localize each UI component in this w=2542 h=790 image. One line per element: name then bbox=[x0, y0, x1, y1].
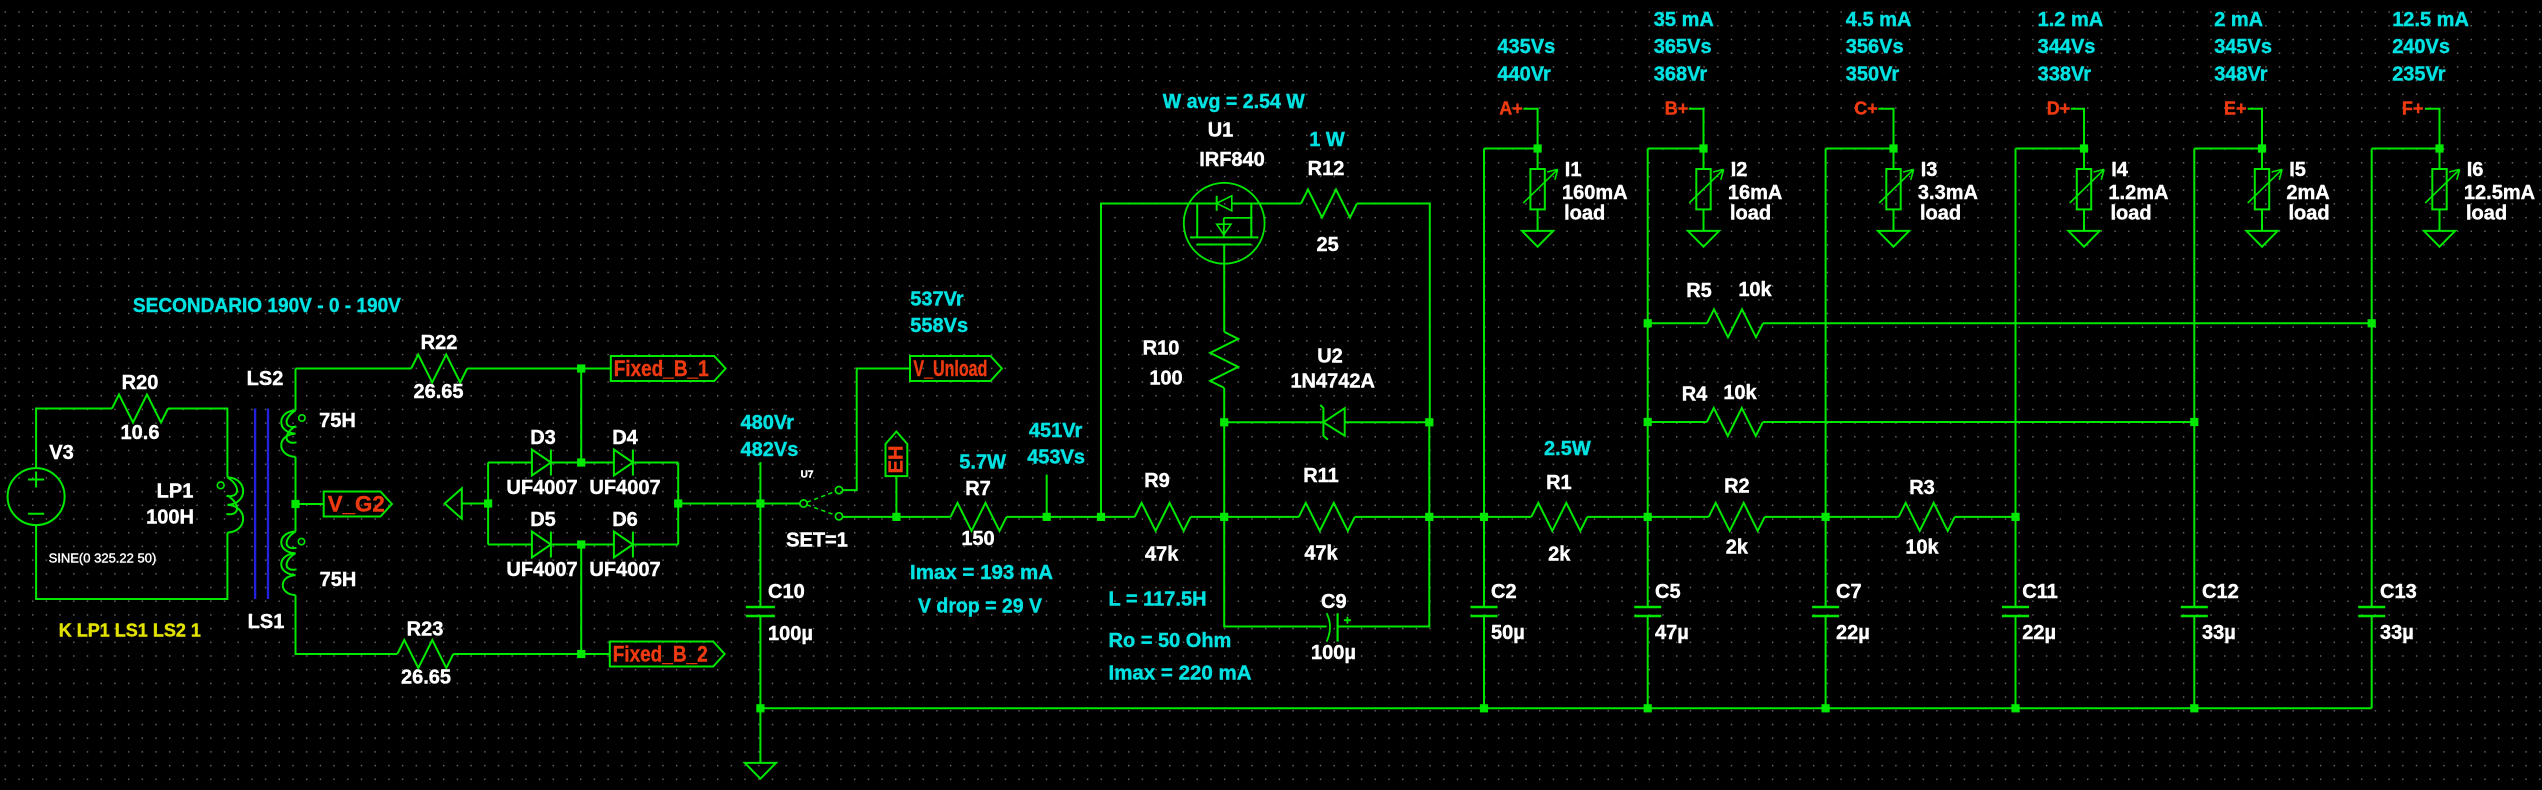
transformer core bbox=[255, 409, 268, 600]
wire bridge output to switch bbox=[678, 503, 800, 505]
svg-text:I2: I2 bbox=[1731, 159, 1748, 181]
svg-text:537Vr: 537Vr bbox=[910, 288, 964, 310]
svg-text:C13: C13 bbox=[2380, 581, 2417, 603]
svg-text:2k: 2k bbox=[1548, 543, 1571, 565]
svg-text:35 mA: 35 mA bbox=[1654, 9, 1714, 31]
svg-text:348Vr: 348Vr bbox=[2214, 64, 2268, 86]
net flag Fixed_B_2 bbox=[610, 642, 725, 667]
wire C9 left leg bbox=[1224, 517, 1326, 627]
svg-text:LP1: LP1 bbox=[157, 481, 194, 503]
junction E rail bottom bbox=[2190, 704, 2198, 712]
svg-text:D3: D3 bbox=[530, 427, 556, 449]
svg-text:47µ: 47µ bbox=[1655, 622, 1689, 644]
wire load top to rail B+ bbox=[1648, 148, 1704, 150]
wire D6 to bridge right bbox=[633, 544, 678, 546]
junction load I2 top bbox=[1699, 144, 1707, 152]
svg-text:10k: 10k bbox=[1723, 382, 1757, 404]
svg-text:2mA: 2mA bbox=[2286, 182, 2329, 204]
diode D6 bbox=[614, 532, 633, 558]
wire B to R5 bbox=[1648, 322, 1707, 324]
diode D3 bbox=[532, 450, 551, 476]
svg-text:235Vr: 235Vr bbox=[2392, 64, 2446, 86]
svg-text:R10: R10 bbox=[1143, 338, 1180, 360]
wire arrow to bridge left node bbox=[462, 503, 488, 505]
wire R7 to R9 bbox=[1007, 516, 1135, 518]
svg-text:C10: C10 bbox=[768, 581, 805, 603]
svg-text:22µ: 22µ bbox=[1836, 622, 1870, 644]
wire F rail lower bbox=[2371, 616, 2373, 709]
svg-text:482Vs: 482Vs bbox=[741, 439, 799, 461]
svg-text:160mA: 160mA bbox=[1562, 182, 1628, 204]
svg-text:C9: C9 bbox=[1321, 591, 1347, 613]
svg-text:V drop = 29 V: V drop = 29 V bbox=[918, 596, 1043, 618]
wire bridge top-left bbox=[488, 462, 532, 464]
svg-text:SET=1: SET=1 bbox=[786, 530, 848, 552]
wire C10 lower bbox=[759, 616, 761, 709]
phase dot LS1 bbox=[298, 538, 304, 544]
wire LP1 bottom to V3 bbox=[36, 525, 227, 599]
wire E rail lower bbox=[2193, 616, 2195, 709]
resistor R12 bbox=[1301, 190, 1357, 218]
junction B rail bottom bbox=[1644, 704, 1652, 712]
wire D4 to bridge right bbox=[633, 462, 678, 464]
wire LS2 top to R22 bbox=[296, 368, 412, 370]
resistor R11 bbox=[1299, 503, 1355, 531]
svg-text:344Vs: 344Vs bbox=[2038, 36, 2096, 58]
junction load I6 top bbox=[2435, 144, 2443, 152]
wire switch upper throw to V_Unload bbox=[843, 369, 910, 491]
wire R4 to E rail bbox=[1763, 421, 2195, 423]
svg-text:R2: R2 bbox=[1724, 476, 1750, 498]
svg-text:load: load bbox=[2466, 202, 2507, 224]
svg-text:10k: 10k bbox=[1738, 279, 1772, 301]
svg-text:R12: R12 bbox=[1308, 158, 1345, 180]
wire D+ to load top bbox=[2071, 109, 2084, 149]
svg-text:10k: 10k bbox=[1905, 537, 1939, 559]
resistor R22 bbox=[411, 355, 467, 383]
inductor LS2 bbox=[295, 369, 297, 411]
wire R9 to R11 bbox=[1191, 516, 1299, 518]
wire to ground bbox=[759, 708, 761, 763]
wire C rail bbox=[1825, 149, 1827, 608]
junction ground bus left bbox=[756, 704, 764, 712]
svg-text:10.6: 10.6 bbox=[121, 422, 160, 444]
svg-text:F+: F+ bbox=[2402, 98, 2424, 118]
svg-text:75H: 75H bbox=[320, 569, 357, 591]
junction B rail bus node bbox=[1644, 513, 1652, 521]
wire A+ to load top bbox=[1523, 109, 1537, 149]
junction load I3 top bbox=[1889, 144, 1897, 152]
svg-text:R7: R7 bbox=[965, 478, 991, 500]
svg-text:4.5 mA: 4.5 mA bbox=[1846, 9, 1912, 31]
switch U7 bbox=[800, 500, 807, 507]
wire F+ to load top bbox=[2425, 109, 2440, 149]
svg-text:Imax = 193 mA: Imax = 193 mA bbox=[910, 562, 1053, 584]
svg-text:356Vs: 356Vs bbox=[1846, 36, 1904, 58]
svg-text:100µ: 100µ bbox=[768, 623, 813, 645]
svg-text:R22: R22 bbox=[421, 332, 458, 354]
resistor R3 bbox=[1899, 503, 1955, 531]
svg-text:SECONDARIO 190V - 0 - 190V: SECONDARIO 190V - 0 - 190V bbox=[133, 295, 402, 317]
resistor R10 bbox=[1210, 332, 1238, 388]
wire R2 to R3 bbox=[1765, 516, 1899, 518]
wire B rail bbox=[1647, 149, 1649, 608]
svg-text:C11: C11 bbox=[2022, 581, 2058, 603]
svg-text:22µ: 22µ bbox=[2022, 622, 2056, 644]
svg-text:100H: 100H bbox=[146, 507, 194, 529]
svg-text:Fixed_B_2: Fixed_B_2 bbox=[613, 642, 708, 667]
svg-text:345Vs: 345Vs bbox=[2214, 36, 2272, 58]
svg-text:Ro = 50 Ohm: Ro = 50 Ohm bbox=[1109, 630, 1232, 652]
wire load top to rail E+ bbox=[2194, 148, 2262, 150]
capacitor C10 bbox=[746, 607, 775, 616]
junction EH node bbox=[892, 513, 900, 521]
svg-text:12.5 mA: 12.5 mA bbox=[2392, 9, 2469, 31]
wire bridge right vertical bbox=[677, 463, 679, 545]
svg-text:365Vs: 365Vs bbox=[1654, 36, 1712, 58]
junction A rail bus node bbox=[1480, 513, 1488, 521]
svg-text:I4: I4 bbox=[2111, 159, 2129, 181]
svg-text:R5: R5 bbox=[1686, 280, 1712, 302]
junction B-R5 bbox=[1644, 319, 1652, 327]
current source I5 bbox=[2261, 149, 2263, 170]
svg-text:I1: I1 bbox=[1565, 159, 1582, 181]
resistor R20 bbox=[112, 395, 168, 423]
node center tap bbox=[291, 500, 299, 508]
capacitor C11 bbox=[2002, 607, 2029, 616]
wire D rail lower bbox=[2015, 616, 2017, 709]
svg-text:B+: B+ bbox=[1665, 98, 1689, 118]
svg-text:C12: C12 bbox=[2202, 581, 2239, 603]
wire load top to rail F+ bbox=[2372, 148, 2440, 150]
capacitor C12 bbox=[2181, 607, 2208, 616]
wire MOSFET source to R10 bbox=[1223, 264, 1225, 332]
svg-text:UF4007: UF4007 bbox=[589, 559, 660, 581]
svg-text:C7: C7 bbox=[1836, 581, 1862, 603]
svg-text:Imax = 220 mA: Imax = 220 mA bbox=[1109, 663, 1252, 685]
svg-text:451Vr: 451Vr bbox=[1029, 420, 1083, 442]
capacitor C2 bbox=[1471, 607, 1498, 616]
svg-text:W avg = 2.54 W: W avg = 2.54 W bbox=[1163, 91, 1305, 113]
wire main bus switch to R7 bbox=[843, 516, 951, 518]
junction bridge top bbox=[577, 458, 585, 466]
wire R12 to zener-right node bbox=[1357, 204, 1430, 423]
wire B to R4 bbox=[1648, 421, 1707, 423]
junction Fixed_B_2 node bbox=[577, 650, 585, 658]
wire B+ to load top bbox=[1689, 109, 1704, 149]
current source I3 bbox=[1893, 149, 1895, 170]
net flag V_Unload bbox=[910, 356, 1002, 381]
svg-text:1.2 mA: 1.2 mA bbox=[2038, 9, 2104, 31]
junction load I1 top bbox=[1534, 144, 1542, 152]
wire gate node to MOSFET gate bbox=[1101, 204, 1184, 517]
wire load top to rail C+ bbox=[1826, 148, 1894, 150]
svg-text:UF4007: UF4007 bbox=[589, 477, 660, 499]
capacitor C5 bbox=[1634, 607, 1661, 616]
net flag Fixed_B_1 bbox=[611, 356, 726, 381]
svg-text:V3: V3 bbox=[49, 442, 73, 464]
svg-text:U2: U2 bbox=[1317, 346, 1343, 368]
capacitor C13 bbox=[2358, 607, 2385, 616]
svg-text:75H: 75H bbox=[319, 410, 356, 432]
svg-text:R11: R11 bbox=[1303, 465, 1339, 487]
wire zener-left node to U2 bbox=[1224, 421, 1323, 423]
wire D3 to D4 bbox=[551, 462, 614, 464]
wire C9 right leg bbox=[1338, 517, 1430, 627]
wire A rail lower bbox=[1483, 616, 1485, 709]
wire C rail lower bbox=[1825, 616, 1827, 709]
resistor R9 bbox=[1135, 503, 1191, 531]
wire R23 to Fixed_B_2 bbox=[453, 653, 610, 655]
svg-text:U1: U1 bbox=[1208, 120, 1234, 142]
svg-text:load: load bbox=[1564, 202, 1605, 224]
svg-text:C5: C5 bbox=[1655, 581, 1681, 603]
current source I4 bbox=[2083, 149, 2085, 170]
svg-text:25: 25 bbox=[1316, 234, 1338, 256]
junction Fixed_B_1 node bbox=[577, 364, 585, 372]
wire bridge to Fixed_B_2 node bbox=[580, 545, 582, 655]
voltage source V3 bbox=[8, 468, 65, 525]
svg-text:2.5W: 2.5W bbox=[1544, 438, 1591, 460]
svg-text:150: 150 bbox=[961, 528, 994, 550]
svg-text:LS1: LS1 bbox=[248, 611, 285, 633]
capacitor C7 bbox=[1812, 607, 1839, 616]
junction bridge bottom bbox=[577, 540, 585, 548]
net flag V_G2 bbox=[324, 492, 392, 517]
wire F rail bbox=[2371, 149, 2373, 608]
transistor U1 IRF840 bbox=[1184, 183, 1265, 264]
svg-text:V_Unload: V_Unload bbox=[913, 356, 987, 381]
resistor R5 bbox=[1707, 309, 1763, 337]
svg-text:47k: 47k bbox=[1145, 543, 1179, 565]
svg-text:EH: EH bbox=[885, 446, 907, 474]
svg-text:3.3mA: 3.3mA bbox=[1918, 182, 1978, 204]
svg-text:I6: I6 bbox=[2467, 159, 2484, 181]
junction zener-right bbox=[1425, 418, 1433, 426]
junction D rail bus end bbox=[2011, 513, 2019, 521]
svg-text:100: 100 bbox=[1149, 368, 1182, 390]
svg-text:26.65: 26.65 bbox=[413, 381, 463, 403]
wire R1 to R2 bbox=[1587, 516, 1708, 518]
svg-text:C+: C+ bbox=[1854, 98, 1878, 118]
port arrow input bbox=[445, 488, 462, 518]
svg-text:2 mA: 2 mA bbox=[2214, 9, 2263, 31]
wire R22 to Fixed_B_1 bbox=[467, 368, 611, 370]
wire V3 top to R20 bbox=[36, 409, 112, 469]
svg-text:E+: E+ bbox=[2224, 98, 2247, 118]
wire C+ to load top bbox=[1878, 109, 1893, 149]
current source I6 bbox=[2439, 149, 2441, 170]
wire LS1 to R23 bbox=[296, 595, 398, 654]
svg-text:K LP1 LS1 LS2 1: K LP1 LS1 LS2 1 bbox=[59, 620, 201, 640]
svg-text:D6: D6 bbox=[612, 509, 638, 531]
wire R11 to R1 section bbox=[1355, 516, 1532, 518]
wire load top to rail A+ bbox=[1484, 148, 1538, 150]
wire A rail bbox=[1483, 149, 1485, 608]
wire B rail lower bbox=[1647, 616, 1649, 709]
svg-text:load: load bbox=[1730, 202, 1771, 224]
svg-text:435Vs: 435Vs bbox=[1497, 36, 1555, 58]
svg-text:IRF840: IRF840 bbox=[1199, 149, 1265, 171]
svg-text:I3: I3 bbox=[1921, 159, 1938, 181]
svg-text:12.5mA: 12.5mA bbox=[2464, 182, 2535, 204]
svg-text:R9: R9 bbox=[1144, 470, 1170, 492]
junction load I4 top bbox=[2080, 144, 2088, 152]
svg-text:R3: R3 bbox=[1909, 477, 1935, 499]
net flag EH bbox=[886, 432, 908, 477]
junction B-R4 bbox=[1644, 418, 1652, 426]
inductor LS1 bbox=[295, 504, 297, 532]
svg-text:L = 117.5H: L = 117.5H bbox=[1109, 589, 1207, 611]
resistor R2 bbox=[1709, 503, 1765, 531]
svg-text:480Vr: 480Vr bbox=[741, 412, 795, 434]
svg-text:D5: D5 bbox=[530, 509, 556, 531]
wire bridge left vertical bbox=[487, 463, 489, 545]
wire probe stub 451 bbox=[1046, 475, 1048, 517]
wire D rail bbox=[2015, 149, 2017, 608]
svg-text:R1: R1 bbox=[1546, 472, 1572, 494]
resistor R1 bbox=[1531, 503, 1587, 531]
zener diode U2 bbox=[1323, 408, 1344, 436]
svg-text:350Vr: 350Vr bbox=[1846, 64, 1900, 86]
wire E+ to load top bbox=[2248, 109, 2262, 149]
junction bridge output bbox=[674, 499, 682, 507]
wire LS2 to center tap bbox=[295, 457, 297, 504]
wire voltage probe stub C10 bbox=[759, 462, 761, 503]
junction C rail bottom bbox=[1822, 704, 1830, 712]
ground bbox=[745, 763, 776, 779]
wire E rail bbox=[2193, 149, 2195, 608]
svg-text:368Vr: 368Vr bbox=[1654, 64, 1708, 86]
junction R4-E rail bbox=[2190, 418, 2198, 426]
wire D5 to D6 bbox=[551, 544, 614, 546]
wire C10 upper bbox=[759, 504, 761, 608]
svg-text:1.2mA: 1.2mA bbox=[2108, 182, 2168, 204]
resistor R4 bbox=[1707, 408, 1763, 436]
svg-text:A+: A+ bbox=[1499, 98, 1523, 118]
wire MOSFET drain to R12 bbox=[1265, 203, 1301, 205]
junction probe 451 bbox=[1043, 513, 1051, 521]
resistor R23 bbox=[397, 640, 453, 668]
diode D4 bbox=[614, 450, 633, 476]
svg-text:440Vr: 440Vr bbox=[1497, 64, 1551, 86]
svg-text:33µ: 33µ bbox=[2202, 622, 2236, 644]
svg-text:16mA: 16mA bbox=[1728, 182, 1782, 204]
wire zener-left node to bus bbox=[1223, 422, 1225, 517]
junction gate node bbox=[1097, 513, 1105, 521]
wire zener-right node to bus bbox=[1428, 422, 1430, 517]
wire Fixed_B_1 node down to bridge bbox=[580, 369, 582, 463]
junction D rail bottom bbox=[2011, 704, 2019, 712]
junction zener-left bbox=[1220, 418, 1228, 426]
junction C rail bus node bbox=[1822, 513, 1830, 521]
junction load I5 top bbox=[2258, 144, 2266, 152]
svg-text:240Vs: 240Vs bbox=[2392, 36, 2450, 58]
diode D5 bbox=[532, 532, 551, 558]
svg-text:load: load bbox=[2111, 202, 2152, 224]
svg-text:LS2: LS2 bbox=[247, 368, 284, 390]
svg-text:558Vs: 558Vs bbox=[910, 315, 968, 337]
phase dot LP1 bbox=[217, 482, 224, 489]
phase dot LS2 bbox=[299, 415, 305, 421]
svg-text:453Vs: 453Vs bbox=[1027, 446, 1085, 468]
svg-text:5.7W: 5.7W bbox=[959, 451, 1006, 473]
wire ground bus bbox=[760, 707, 2371, 709]
svg-text:D4: D4 bbox=[612, 427, 638, 449]
svg-text:R23: R23 bbox=[407, 619, 444, 641]
svg-text:50µ: 50µ bbox=[1491, 622, 1525, 644]
inductor LP1 bbox=[227, 477, 243, 532]
svg-text:26.65: 26.65 bbox=[401, 667, 451, 689]
svg-text:load: load bbox=[1920, 202, 1961, 224]
svg-text:U7: U7 bbox=[801, 470, 814, 481]
svg-text:UF4007: UF4007 bbox=[506, 559, 577, 581]
svg-text:33µ: 33µ bbox=[2380, 622, 2414, 644]
svg-text:47k: 47k bbox=[1304, 542, 1338, 564]
svg-text:2k: 2k bbox=[1726, 537, 1749, 559]
current source I1 bbox=[1537, 149, 1539, 170]
wire R3 to D rail bbox=[1955, 516, 2016, 518]
wire U2 to zener-right node bbox=[1345, 421, 1430, 423]
wire R20 to LP1 bbox=[168, 409, 227, 478]
svg-text:338Vr: 338Vr bbox=[2038, 64, 2092, 86]
junction A rail bottom bbox=[1480, 704, 1488, 712]
wire center tap to V_G2 flag bbox=[296, 503, 324, 505]
junction bridge left bbox=[484, 499, 492, 507]
svg-text:1 W: 1 W bbox=[1309, 129, 1345, 151]
wire EH stub bbox=[895, 476, 897, 517]
svg-text:UF4007: UF4007 bbox=[506, 477, 577, 499]
junction zener-right bus node bbox=[1425, 513, 1433, 521]
svg-text:R20: R20 bbox=[122, 372, 159, 394]
svg-text:SINE(0 325.22 50): SINE(0 325.22 50) bbox=[49, 551, 157, 566]
svg-text:1N4742A: 1N4742A bbox=[1290, 371, 1375, 393]
svg-text:D+: D+ bbox=[2047, 98, 2071, 118]
wire R5 to F rail bbox=[1763, 322, 2372, 324]
svg-text:I5: I5 bbox=[2289, 159, 2306, 181]
junction F-R5 bbox=[2368, 319, 2376, 327]
svg-text:V_G2: V_G2 bbox=[328, 492, 385, 517]
resistor R7 bbox=[951, 503, 1007, 531]
svg-text:R4: R4 bbox=[1682, 383, 1708, 405]
svg-text:C2: C2 bbox=[1491, 581, 1517, 603]
current source I2 bbox=[1703, 149, 1705, 170]
svg-text:load: load bbox=[2289, 202, 2330, 224]
wire bridge bottom-left bbox=[488, 544, 532, 546]
svg-text:100µ: 100µ bbox=[1311, 642, 1356, 664]
svg-text:Fixed_B_1: Fixed_B_1 bbox=[614, 356, 709, 381]
wire load top to rail D+ bbox=[2016, 148, 2085, 150]
junction zener-left bus node bbox=[1220, 513, 1228, 521]
capacitor C9 bbox=[1327, 613, 1330, 641]
junction C10 top bbox=[756, 499, 764, 507]
wire R10 to zener-left node bbox=[1223, 388, 1225, 422]
